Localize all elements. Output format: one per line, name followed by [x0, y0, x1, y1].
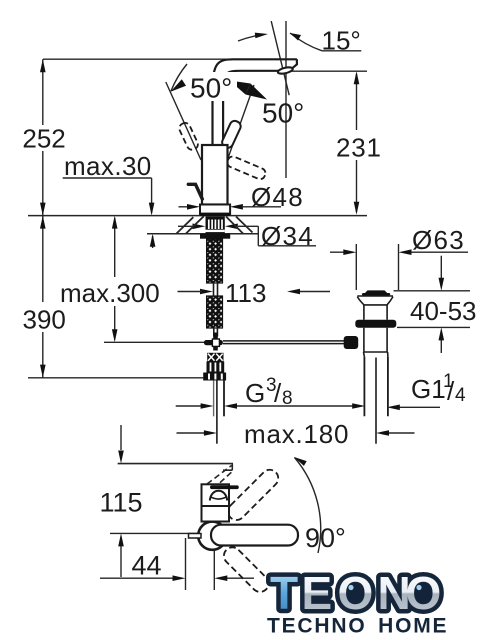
svg-text:115: 115	[100, 488, 143, 518]
svg-text:50°: 50°	[262, 98, 304, 129]
svg-text:231: 231	[336, 133, 382, 163]
svg-text:8: 8	[282, 388, 293, 409]
svg-text:Ø63: Ø63	[412, 225, 465, 255]
svg-text:3: 3	[266, 375, 277, 396]
svg-text:50°: 50°	[190, 73, 232, 104]
svg-text:90°: 90°	[305, 523, 346, 553]
svg-text:390: 390	[23, 305, 66, 335]
svg-text:4: 4	[455, 385, 466, 406]
svg-text:G: G	[245, 378, 265, 408]
svg-text:1: 1	[443, 371, 454, 392]
svg-text:O: O	[338, 567, 374, 619]
svg-text:15°: 15°	[322, 25, 361, 55]
svg-text:TECHNO HOME: TECHNO HOME	[267, 615, 448, 638]
svg-text:113: 113	[225, 278, 266, 308]
svg-text:max.30: max.30	[64, 151, 152, 181]
svg-text:O: O	[406, 567, 442, 619]
svg-text:40-53: 40-53	[410, 296, 477, 326]
svg-text:max.180: max.180	[244, 419, 349, 449]
svg-text:Ø34: Ø34	[261, 221, 314, 251]
svg-text:252: 252	[22, 123, 65, 153]
svg-text:E: E	[302, 567, 333, 619]
svg-text:Ø48: Ø48	[251, 182, 304, 212]
svg-text:max.300: max.300	[60, 278, 160, 308]
svg-text:44: 44	[132, 551, 162, 581]
svg-text:T: T	[270, 567, 298, 619]
svg-text:G1: G1	[411, 374, 446, 404]
